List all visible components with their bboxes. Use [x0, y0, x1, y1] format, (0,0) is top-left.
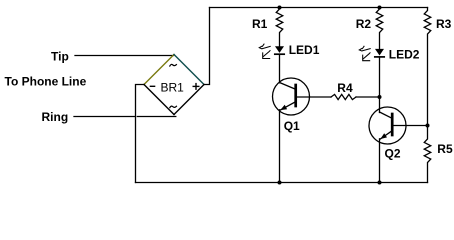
node Q1 emitter / bottom rail junction [278, 181, 282, 185]
LED LED2 (diode triangle and cathode bar) [375, 49, 384, 57]
wire R4 to Q2 collector node [356, 96, 380, 98]
LED2 light emission arrows [359, 46, 370, 61]
svg-text:Ring: Ring [42, 110, 69, 124]
node R4 / LED2 / Q2 collector junction [378, 95, 382, 99]
transistor Q2 [369, 107, 406, 144]
wire Q1 base lead [297, 96, 332, 98]
svg-text:BR1: BR1 [161, 80, 185, 94]
wire Q1 emitter to bottom rail [279, 110, 281, 183]
node R2 / top rail junction [378, 6, 382, 10]
resistor R5 [424, 126, 431, 183]
wire bridge positive lead to top rail [204, 8, 210, 85]
svg-text:R4: R4 [337, 81, 353, 95]
transistor Q1 [273, 78, 310, 115]
wire Ring lead (right of crossing) [137, 116, 176, 118]
svg-text:R5: R5 [437, 142, 453, 156]
svg-text:Q1: Q1 [284, 119, 300, 133]
wire LED1 cathode to Q1 collector [279, 54, 281, 83]
LED1 light emission arrows [259, 44, 270, 59]
LED LED1 (diode triangle and cathode bar) [275, 46, 284, 54]
svg-text:LED2: LED2 [389, 47, 420, 61]
svg-text:To Phone Line: To Phone Line [5, 74, 87, 88]
wire Tip lead [75, 55, 174, 57]
wire Q2 emitter to bottom rail [379, 139, 381, 183]
resistor R4 [331, 94, 356, 99]
svg-text:R3: R3 [436, 17, 452, 31]
svg-text:Tip: Tip [51, 50, 69, 64]
node R1 / top rail junction [278, 6, 282, 10]
node Q2 emitter / bottom rail junction [378, 181, 382, 185]
node Q2 base / R3 / R5 junction [426, 124, 430, 128]
resistor R2 [376, 8, 383, 49]
wire junction node to Q2 collector [379, 97, 381, 113]
wire Q2 base lead [393, 125, 428, 127]
resistor R3 [424, 8, 431, 126]
plus terminal mark [193, 84, 199, 90]
AC tilde mark (bottom) [170, 106, 177, 108]
minus terminal mark [150, 85, 154, 87]
svg-text:Q2: Q2 [385, 146, 401, 160]
wire Ring lead (left of crossing) [74, 116, 134, 118]
wire bridge negative lead to bottom rail [136, 85, 145, 183]
AC tilde mark (top) [170, 64, 177, 66]
wire bottom rail [136, 182, 428, 184]
resistor R1 [276, 8, 283, 47]
wire top rail [210, 7, 428, 9]
svg-text:R1: R1 [252, 17, 268, 31]
bridge rectifier BR1 (diamond body) [144, 55, 204, 115]
wire LED2 cathode to junction node [379, 57, 381, 97]
svg-text:LED1: LED1 [289, 43, 320, 57]
svg-text:R2: R2 [356, 17, 372, 31]
